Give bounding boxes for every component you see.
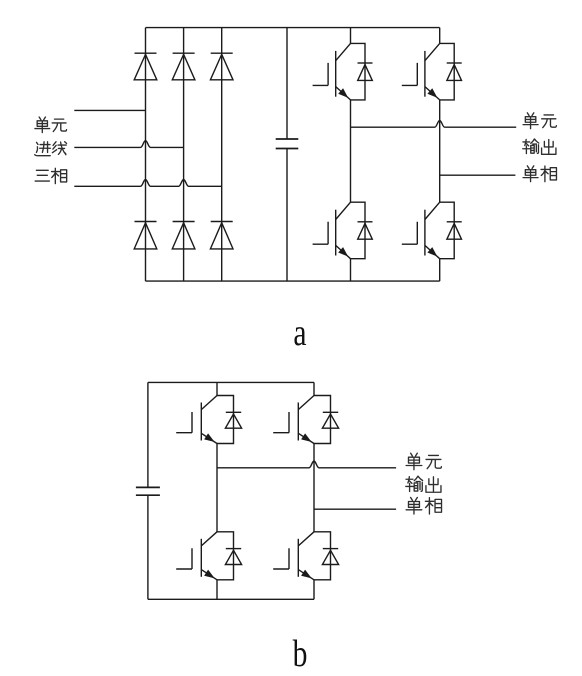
svg-text:a: a <box>293 313 306 354</box>
diode D5 <box>173 221 195 223</box>
wire bottom DC bus (a) <box>146 280 440 282</box>
wire left phase-leg (b) <box>216 382 218 395</box>
wire top bus (b) <box>148 381 314 383</box>
wire output line 1 (a) <box>351 120 517 127</box>
wire module Q2 <box>440 43 455 100</box>
diode DQ4 <box>447 221 462 223</box>
wire right phase-leg (b) <box>313 382 315 395</box>
transistor Q3 <box>335 210 337 256</box>
wire output line 1 (b) <box>217 461 396 468</box>
diode D4 <box>135 221 157 223</box>
svg-text:b: b <box>293 634 308 675</box>
wire input phase C <box>74 180 221 187</box>
diode DQ5 <box>226 411 241 413</box>
wire module Q1 <box>351 43 366 100</box>
wire input phase A <box>74 109 145 111</box>
wire rectifier leg 2 <box>183 28 185 282</box>
label unit-output single-phase (a) <box>523 113 538 129</box>
capacitor C1 <box>286 28 288 139</box>
transistor Q6 <box>297 403 299 441</box>
wire bottom bus (b) <box>148 598 314 600</box>
diode DQ2 <box>447 62 462 64</box>
wire module Q3 <box>351 202 366 259</box>
wire input phase B <box>74 141 183 148</box>
diode D6 <box>211 221 233 223</box>
diode DQ6 <box>323 411 338 413</box>
wire module Q5 <box>217 396 234 444</box>
diode D3 <box>211 52 233 54</box>
wire rectifier leg 1 <box>145 28 147 282</box>
wire left phase-leg (a) <box>350 28 352 44</box>
label unit-input three-phase <box>35 117 50 133</box>
wire top DC bus (a) <box>146 27 440 29</box>
wire module Q6 <box>314 396 331 444</box>
diode DQ8 <box>323 548 338 550</box>
transistor Q7 <box>200 539 202 577</box>
capacitor C2 <box>147 382 149 487</box>
wire output line 2 (a) <box>440 174 516 176</box>
transistor Q8 <box>297 539 299 577</box>
transistor Q1 <box>335 51 337 97</box>
wire module Q7 <box>217 532 234 580</box>
transistor Q4 <box>424 210 426 256</box>
diode D1 <box>135 52 157 54</box>
wire module Q4 <box>440 202 455 259</box>
label unit-output single-phase (b) <box>406 453 422 470</box>
diode DQ3 <box>358 221 373 223</box>
transistor Q2 <box>424 51 426 97</box>
diode D2 <box>173 52 195 54</box>
wire output line 2 (b) <box>314 508 396 510</box>
diode DQ1 <box>358 62 373 64</box>
diode DQ7 <box>226 548 241 550</box>
transistor Q5 <box>200 403 202 441</box>
wire rectifier leg 3 <box>221 28 223 282</box>
wire right phase-leg (a) <box>439 28 441 44</box>
wire module Q8 <box>314 532 331 580</box>
